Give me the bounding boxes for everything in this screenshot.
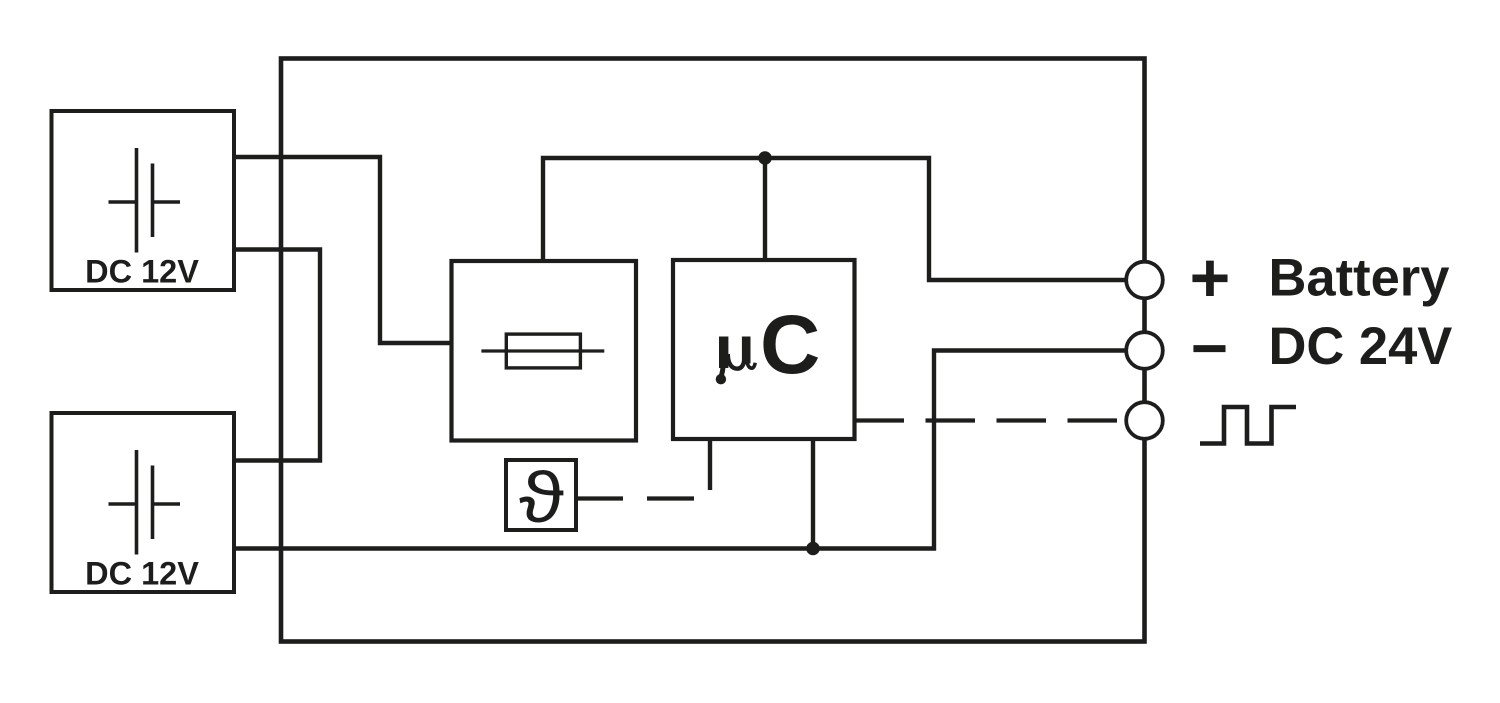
fuse F1 symbol: [481, 334, 604, 368]
junction node uC supply tap: [758, 151, 772, 165]
wire uC top supply pin: [763, 158, 767, 260]
battery G1 box: [52, 111, 235, 290]
dashed wire temperature sensor to uC: [576, 496, 698, 500]
wire battery G1 plus to fuse input: [234, 157, 452, 343]
svg-text:DC 24V: DC 24V: [1269, 317, 1453, 376]
fuse F1 box: [452, 261, 637, 441]
svg-text:−: −: [1191, 312, 1228, 384]
battery G2 symbol: [109, 450, 181, 555]
microcontroller U1 box: [673, 260, 855, 439]
wire battery G1 minus to battery G2 plus (series link): [234, 250, 320, 461]
wire uC bottom ground pin: [811, 439, 815, 549]
junction node ground tap: [806, 542, 820, 556]
svg-text:DC 12V: DC 12V: [85, 556, 199, 592]
battery G1 symbol: [109, 148, 181, 253]
svg-text:C: C: [760, 297, 820, 391]
svg-text:ϑ: ϑ: [519, 458, 564, 537]
svg-text:Battery: Battery: [1269, 249, 1450, 308]
svg-text:+: +: [1190, 239, 1231, 317]
terminal plus circle: [1126, 262, 1163, 299]
wire uC sensor pin stub: [708, 439, 712, 490]
temperature sensor box: [506, 460, 576, 530]
terminal minus circle: [1126, 332, 1163, 369]
battery G2 box: [52, 413, 235, 592]
microcontroller U1 label uC: [716, 297, 821, 391]
temperature sensor label theta: [519, 458, 564, 537]
wire fuse output to uC top and plus terminal: [543, 158, 1130, 280]
enclosure outline (device box): [281, 59, 1145, 642]
wire battery G2 minus along bottom to minus terminal: [234, 351, 1130, 549]
terminal pulse circle: [1126, 402, 1163, 439]
dashed wire uC signal output to pulse terminal: [855, 418, 1131, 422]
pulse waveform symbol: [1200, 407, 1296, 444]
svg-text:DC 12V: DC 12V: [85, 254, 199, 290]
